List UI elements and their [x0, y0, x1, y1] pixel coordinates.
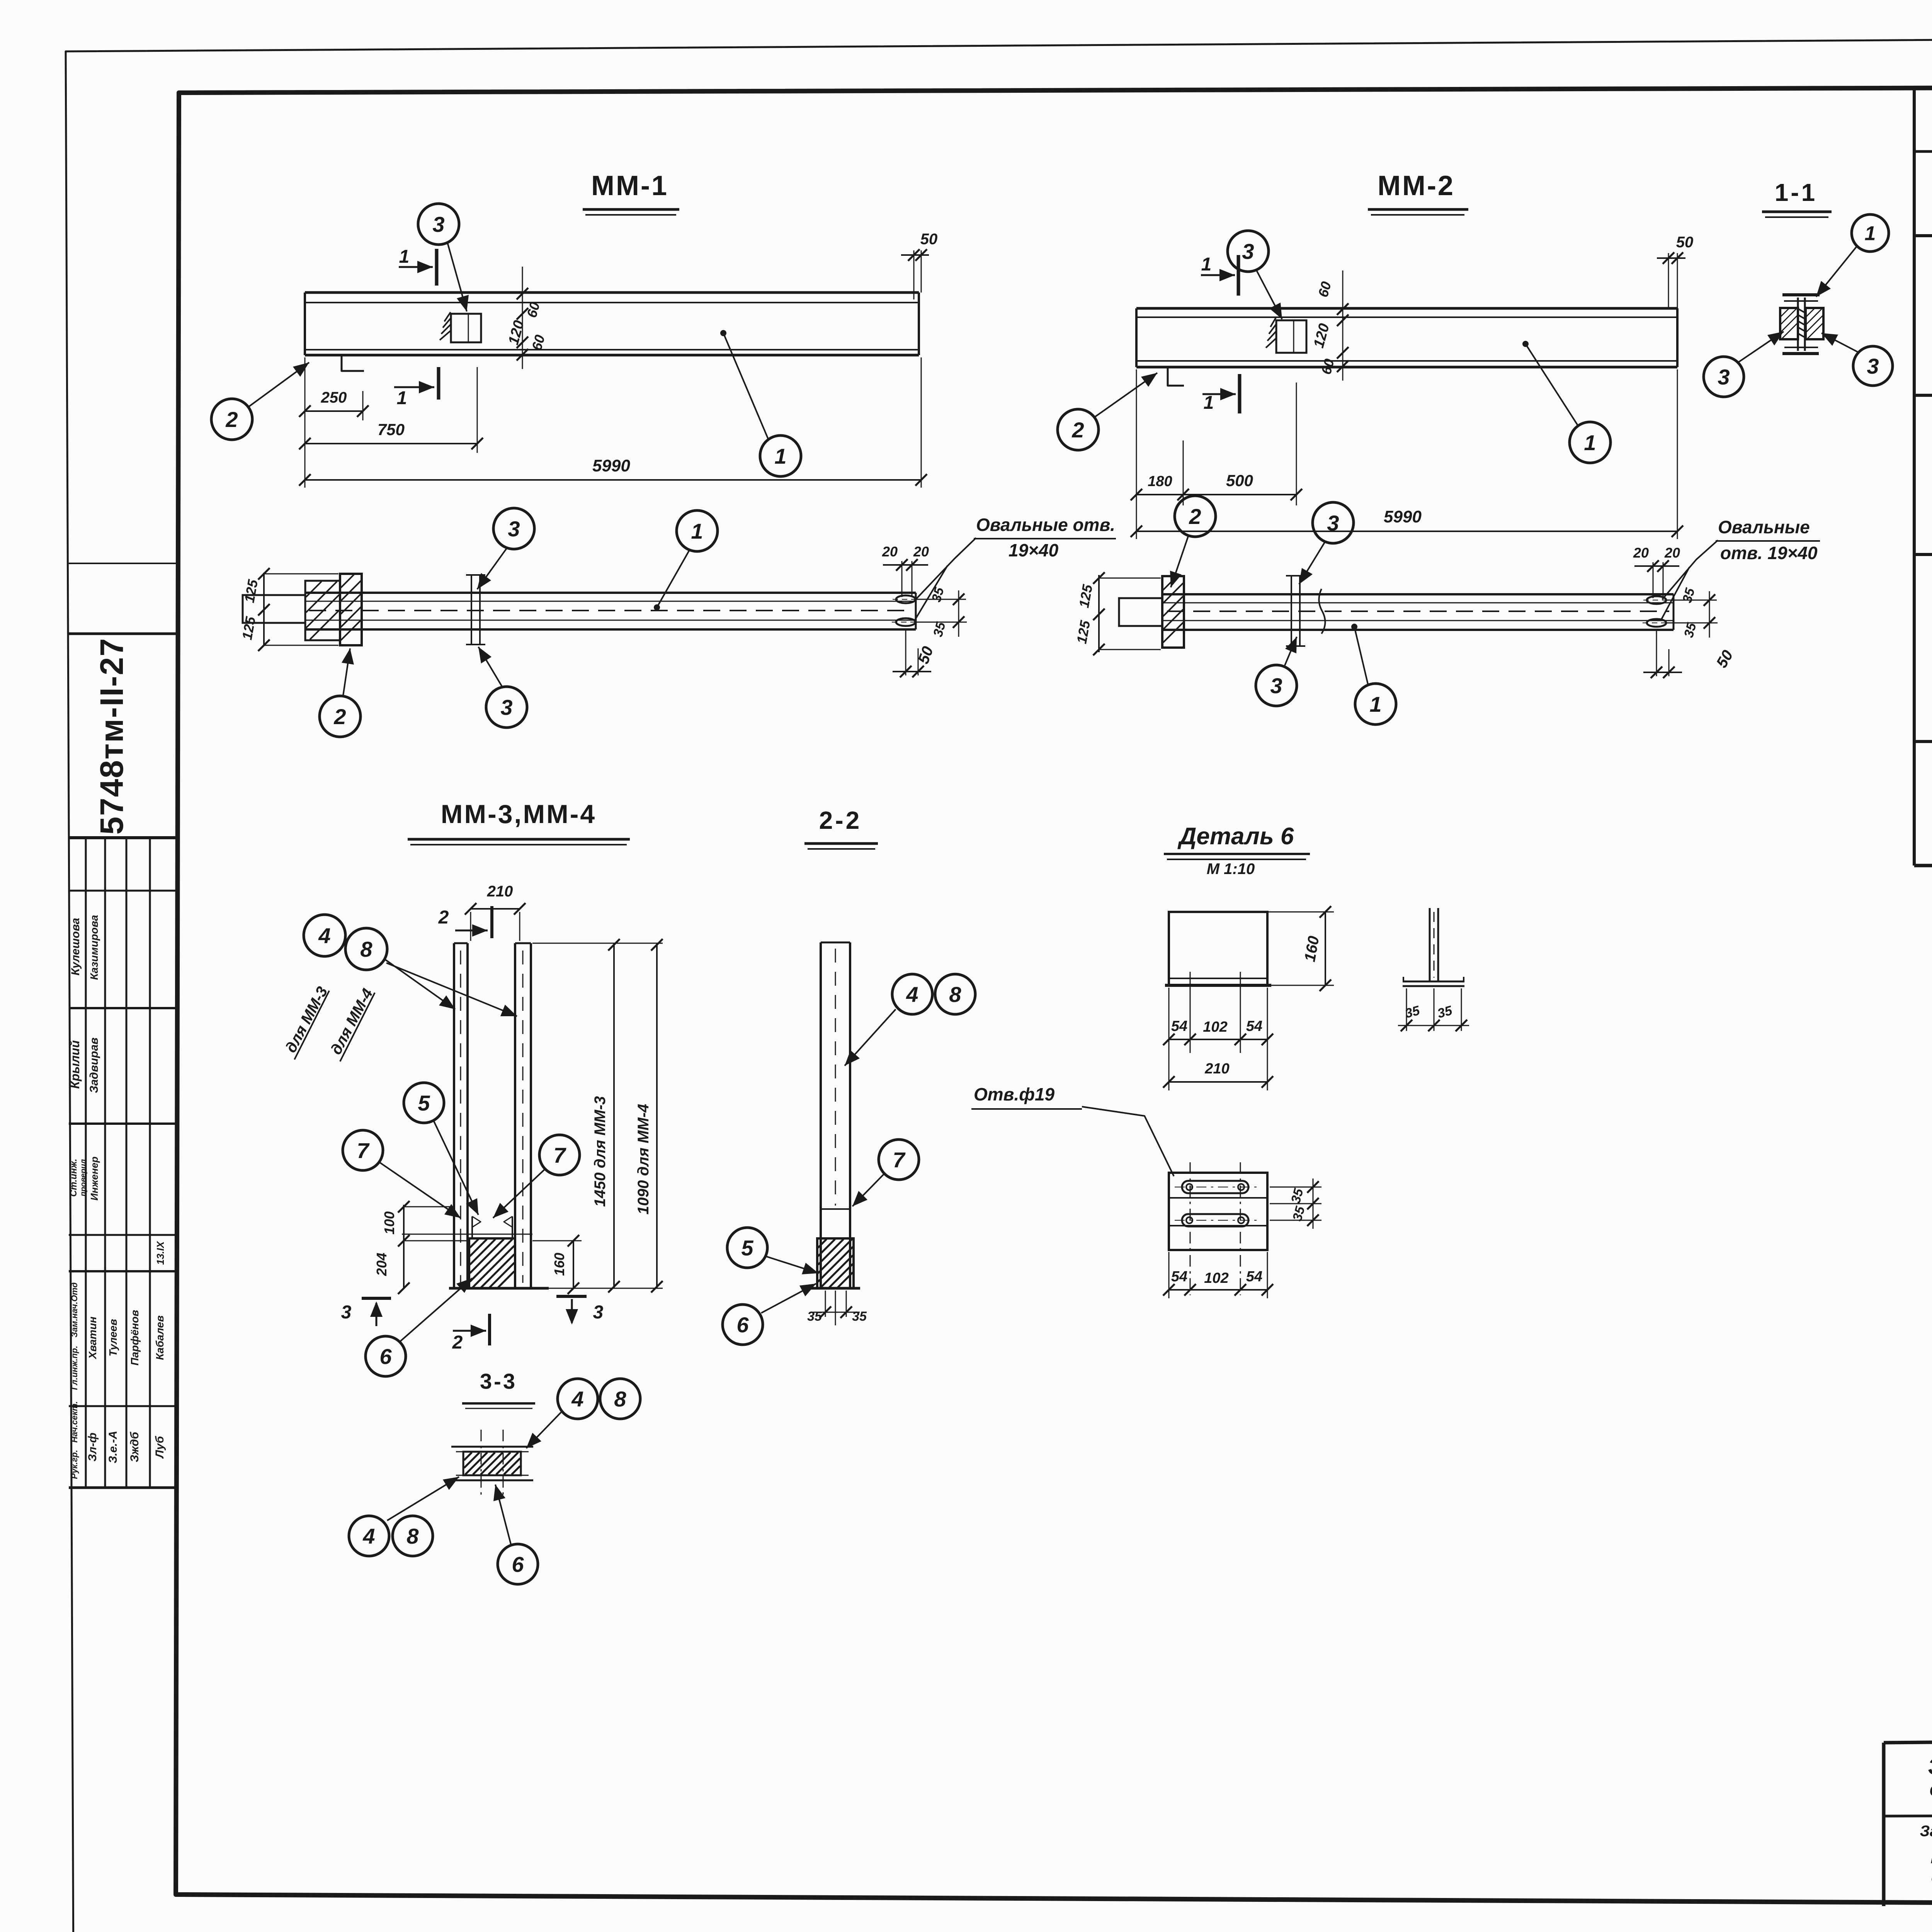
svg-text:Зждб: Зждб	[128, 1431, 141, 1462]
svg-text:3: 3	[1718, 365, 1730, 389]
svg-text:З.е.-А: З.е.-А	[107, 1431, 119, 1463]
svg-text:1-1: 1-1	[1775, 179, 1818, 206]
svg-text:Отв.ф19: Отв.ф19	[974, 1084, 1055, 1104]
svg-text:5990: 5990	[592, 456, 630, 475]
svg-text:8: 8	[614, 1387, 626, 1411]
svg-text:102: 102	[1203, 1019, 1227, 1035]
svg-text:Казимирова: Казимирова	[88, 915, 100, 980]
svg-text:54: 54	[1246, 1018, 1262, 1034]
svg-text:Ст.инж.: Ст.инж.	[68, 1159, 79, 1197]
svg-text:2: 2	[1189, 504, 1201, 529]
svg-text:Кулешова: Кулешова	[69, 918, 82, 975]
svg-text:2-2: 2-2	[819, 806, 862, 834]
svg-text:35: 35	[807, 1309, 822, 1324]
svg-text:проверил: проверил	[79, 1159, 88, 1196]
svg-text:54: 54	[1171, 1018, 1187, 1034]
svg-text:Рук.гр.: Рук.гр.	[70, 1450, 79, 1479]
svg-text:Деталь 6: Деталь 6	[1177, 823, 1294, 850]
svg-text:6: 6	[736, 1313, 749, 1337]
svg-text:1: 1	[1369, 692, 1381, 716]
svg-text:250: 250	[321, 389, 347, 406]
svg-text:4: 4	[906, 982, 918, 1007]
svg-text:6: 6	[379, 1344, 392, 1369]
svg-text:8: 8	[360, 937, 372, 961]
svg-text:210: 210	[487, 883, 513, 900]
svg-text:ММ-1: ММ-1	[591, 170, 668, 201]
svg-text:2: 2	[452, 1332, 463, 1353]
svg-text:8: 8	[406, 1524, 419, 1548]
svg-text:1: 1	[691, 519, 703, 543]
svg-text:Северо-Западное отделение: Северо-Западное отделение	[1929, 1781, 1932, 1799]
svg-text:3: 3	[500, 695, 512, 719]
svg-text:Тулеев: Тулеев	[107, 1319, 119, 1356]
svg-text:7: 7	[357, 1138, 370, 1163]
svg-text:3: 3	[341, 1302, 352, 1323]
svg-text:3: 3	[508, 517, 520, 541]
svg-text:2: 2	[438, 907, 449, 928]
svg-text:5990: 5990	[1384, 507, 1422, 526]
svg-text:20: 20	[1633, 545, 1649, 561]
svg-text:1450 для ММ-3: 1450 для ММ-3	[592, 1096, 609, 1207]
svg-text:1: 1	[1865, 223, 1876, 245]
svg-text:5: 5	[418, 1091, 430, 1115]
svg-text:Инженер: Инженер	[88, 1156, 100, 1201]
svg-text:Кабалев: Кабалев	[154, 1315, 166, 1360]
svg-text:204: 204	[374, 1253, 389, 1276]
svg-text:Гл.инж.пр.: Гл.инж.пр.	[70, 1346, 79, 1390]
svg-text:1: 1	[1584, 430, 1596, 455]
svg-text:3: 3	[1867, 354, 1879, 378]
svg-text:7: 7	[553, 1143, 566, 1167]
svg-text:ММ-2: ММ-2	[1378, 170, 1455, 201]
svg-text:500: 500	[1226, 471, 1253, 490]
svg-text:мощностью до 126 (2×63)МВа: мощностью до 126 (2×63)МВа	[1931, 1849, 1932, 1867]
svg-text:35: 35	[852, 1309, 867, 1324]
svg-text:2: 2	[1071, 418, 1084, 442]
svg-text:1: 1	[399, 247, 410, 267]
svg-text:5: 5	[741, 1236, 753, 1260]
svg-text:Луб: Луб	[153, 1435, 166, 1459]
svg-text:19×40: 19×40	[1009, 540, 1059, 560]
svg-text:2: 2	[225, 407, 238, 432]
svg-text:М 1:10: М 1:10	[1207, 861, 1255, 878]
svg-text:750: 750	[378, 420, 405, 439]
svg-text:50: 50	[920, 231, 938, 248]
svg-text:100: 100	[381, 1211, 397, 1235]
svg-text:Закрытые подстанции 110/6-10кв: Закрытые подстанции 110/6-10кв	[1920, 1823, 1932, 1840]
svg-text:54: 54	[1246, 1269, 1262, 1285]
svg-text:Задвирав: Задвирав	[88, 1037, 100, 1093]
svg-text:54: 54	[1171, 1269, 1187, 1285]
svg-text:2: 2	[333, 704, 346, 729]
svg-text:3: 3	[432, 212, 444, 236]
svg-text:20: 20	[913, 544, 929, 560]
svg-text:3: 3	[1327, 511, 1339, 535]
svg-text:Овальные: Овальные	[1718, 517, 1810, 537]
svg-text:180: 180	[1148, 473, 1172, 490]
svg-text:ЭНЕРГОСЕТЬПРОЕКТ: ЭНЕРГОСЕТЬПРОЕКТ	[1928, 1753, 1932, 1779]
svg-text:7: 7	[893, 1148, 906, 1172]
svg-text:Парфёнов: Парфёнов	[129, 1310, 141, 1366]
svg-text:13.IX: 13.IX	[155, 1241, 166, 1265]
svg-text:ММ-3,ММ-4: ММ-3,ММ-4	[441, 799, 596, 829]
svg-text:4: 4	[571, 1387, 583, 1411]
svg-text:1: 1	[1201, 254, 1212, 275]
svg-text:1: 1	[397, 388, 407, 408]
svg-text:3: 3	[1270, 673, 1282, 698]
svg-text:1090 для ММ-4: 1090 для ММ-4	[635, 1104, 652, 1215]
svg-text:50: 50	[1676, 234, 1694, 251]
svg-text:102: 102	[1204, 1270, 1228, 1286]
svg-text:160: 160	[551, 1253, 567, 1276]
svg-text:3-3: 3-3	[480, 1369, 517, 1393]
svg-text:5748тм-II-27: 5748тм-II-27	[94, 638, 130, 835]
svg-text:Зам.нач.Отд: Зам.нач.Отд	[70, 1282, 79, 1337]
svg-text:8: 8	[949, 982, 961, 1007]
svg-text:4: 4	[362, 1524, 375, 1548]
svg-text:3: 3	[1242, 239, 1254, 264]
svg-text:Нач.сект.: Нач.сект.	[70, 1401, 79, 1442]
svg-text:1: 1	[774, 444, 786, 468]
svg-text:отв. 19×40: отв. 19×40	[1720, 543, 1818, 563]
svg-text:Хватин: Хватин	[87, 1316, 99, 1360]
svg-text:3: 3	[593, 1302, 604, 1323]
svg-text:6: 6	[512, 1552, 524, 1577]
svg-text:4: 4	[318, 923, 330, 948]
svg-text:210: 210	[1204, 1061, 1229, 1077]
svg-text:20: 20	[882, 544, 898, 560]
svg-text:20: 20	[1664, 545, 1680, 561]
svg-text:1: 1	[1204, 393, 1214, 413]
svg-text:Овальные отв.: Овальные отв.	[976, 515, 1115, 535]
svg-text:Крылий: Крылий	[68, 1040, 82, 1089]
svg-text:Зл-ф: Зл-ф	[86, 1433, 99, 1462]
